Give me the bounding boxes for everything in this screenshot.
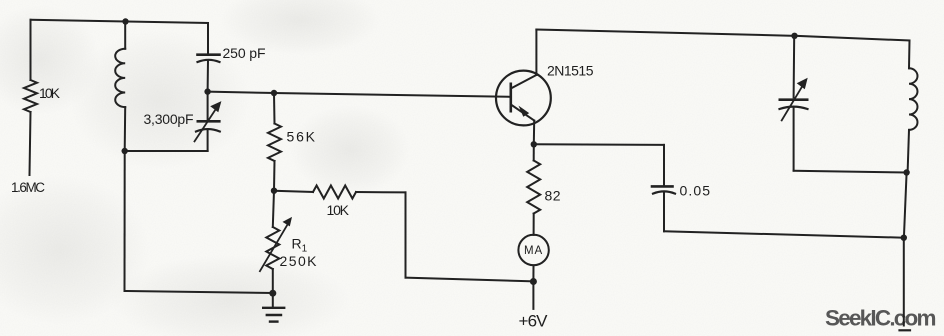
junction node +6V <box>530 278 537 285</box>
svg-text:+6V: +6V <box>519 312 549 331</box>
wire +6V node down to terminal <box>532 282 534 309</box>
wire collector up <box>535 30 537 76</box>
wire left column lower to 1.6MC terminal <box>30 112 31 175</box>
svg-text:2N1515: 2N1515 <box>547 63 594 79</box>
junction node top rail C4 <box>791 33 797 39</box>
wire corner vertical down <box>405 192 407 277</box>
resistor 10K (left antenna leg) <box>24 80 37 112</box>
wire 0.05 branch vertical upper <box>663 145 665 185</box>
wire node A to 56K node <box>208 92 274 93</box>
resistor 10K (bias) body <box>313 186 356 199</box>
transistor Q1 circle <box>496 71 551 126</box>
wire top rail C4 node to corner <box>795 36 910 41</box>
capacitor C4 tuning arrowhead <box>797 78 808 89</box>
capacitor C4 bottom lead <box>793 107 795 171</box>
capacitor C2 3300pF top lead <box>207 92 209 120</box>
resistor 56K top lead <box>273 93 276 124</box>
inductor L2 coil <box>909 68 918 130</box>
wire lower-left rail horizontal to ground node <box>125 291 273 293</box>
resistor 82 bottom lead <box>533 214 535 235</box>
ground bar 1 <box>263 307 284 309</box>
capacitor C1 250pF plates <box>198 53 220 56</box>
wire emitter vertical <box>533 121 535 145</box>
resistor 82 body <box>527 161 540 214</box>
junction node 56K top <box>271 90 277 96</box>
wire 56K node to transistor base <box>274 93 511 97</box>
svg-text:10K: 10K <box>39 85 61 101</box>
svg-text:250K: 250K <box>280 253 318 269</box>
junction node emitter <box>531 141 537 147</box>
ground bar 3 <box>270 320 277 322</box>
svg-text:10K: 10K <box>327 202 350 218</box>
svg-text:56K: 56K <box>287 129 316 145</box>
wire C3 bottom to right rail <box>664 231 904 237</box>
transistor Q1 emitter diagonal <box>511 105 534 121</box>
potentiometer R1 250K body <box>266 227 279 269</box>
wire emitter node to 0.05 branch <box>534 143 664 146</box>
transistor Q1 emitter arrowhead <box>519 106 530 117</box>
junction node A (250pF/3300pF/base) <box>204 88 210 94</box>
inductor L1 top lead <box>124 22 126 49</box>
capacitor C4 tuning arrow <box>782 84 804 120</box>
wire top horizontal to 250pF branch <box>126 22 209 24</box>
capacitor C4 variable plates <box>780 98 807 101</box>
inductor L2 top lead <box>908 41 911 69</box>
resistor 56K body <box>268 124 281 162</box>
wire 56K node to 10K resistor <box>274 191 313 192</box>
svg-text:3,300pF: 3,300pF <box>144 111 194 127</box>
svg-text:MA: MA <box>524 245 543 257</box>
junction node right rail C3 <box>901 235 907 241</box>
junction node ground <box>269 290 276 297</box>
capacitor C3 bottom lead <box>663 192 665 231</box>
capacitor C2 3300pF plates <box>198 120 220 123</box>
scan smudges <box>0 0 410 336</box>
wire top-left horizontal <box>31 20 126 22</box>
transistor Q1 collector diagonal <box>511 75 537 89</box>
capacitor C2 bottom lead <box>207 130 209 152</box>
capacitor C1 bottom lead <box>207 61 209 92</box>
capacitor C3 0.05 plates <box>652 185 673 188</box>
wire C4 bottom to L2 bottom node <box>794 171 907 173</box>
resistor 56K bottom lead <box>273 161 276 191</box>
capacitor C4 top lead <box>793 36 796 98</box>
wire meter to +6V node <box>532 265 534 281</box>
svg-text:1.6MC: 1.6MC <box>11 180 45 195</box>
inductor L2 bottom lead <box>908 130 909 173</box>
wire C2 bottom to L1 bottom <box>125 150 208 152</box>
junction node top-left <box>122 18 128 24</box>
ground tick bottom right <box>900 329 911 331</box>
meter M1 MA circle <box>518 235 548 265</box>
potentiometer R1 arrowhead <box>283 217 293 227</box>
wire top rail collector to C4 node <box>536 30 794 36</box>
wire right rail upper <box>904 173 907 238</box>
wire left column upper <box>30 20 32 80</box>
wire right rail lower <box>903 238 905 326</box>
resistor 82 top lead <box>533 144 535 160</box>
ground bar 2 <box>267 314 281 316</box>
potentiometer R1 bottom lead <box>272 269 274 293</box>
transistor Q1 base bar <box>509 84 512 111</box>
svg-text:0.05: 0.05 <box>680 183 711 199</box>
svg-text:250 pF: 250 pF <box>223 45 266 61</box>
inductor L1 coil <box>115 49 125 107</box>
inductor L1 bottom lead <box>124 107 127 151</box>
capacitor C1 250pF top lead <box>207 23 209 53</box>
capacitor C2 trimmer arrowhead <box>210 101 221 112</box>
wire L1 bottom to lower-left rail <box>124 151 126 291</box>
junction node L1 bottom <box>122 148 128 154</box>
wire bottom horizontal to +6V node <box>406 278 534 282</box>
potentiometer R1 250K top lead <box>273 191 274 227</box>
junction node L2 bottom <box>903 169 909 175</box>
capacitor C2 trimmer arrow <box>195 107 218 141</box>
wire 10K to corner <box>356 191 406 193</box>
junction node 56K bottom <box>271 188 277 194</box>
ground stem <box>272 293 274 307</box>
svg-text:82: 82 <box>545 188 561 204</box>
potentiometer R1 arrow <box>260 222 289 271</box>
svg-text:SeekIC.com: SeekIC.com <box>825 306 937 331</box>
